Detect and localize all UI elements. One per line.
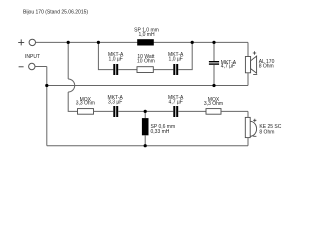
svg-text:0,33 mH: 0,33 mH [151, 129, 170, 135]
inductor L2 SP 0,6mm 0,33mH [142, 118, 149, 135]
minus sign of input [19, 66, 24, 68]
svg-text:4,7 µF: 4,7 µF [169, 100, 183, 106]
input terminal + [29, 39, 35, 45]
resistor R2 MOX 3,3 Ohm [78, 109, 94, 115]
node E minus rail junction [45, 84, 48, 87]
capacitor C2 MKT-A 1,0uF [173, 64, 175, 75]
svg-text:1,0 µF: 1,0 µF [109, 57, 123, 63]
wire RC branch left vertical [98, 42, 113, 69]
wire C5 to R3 [178, 110, 206, 112]
wire shunt cap lower [213, 65, 215, 86]
plus sign of input [18, 39, 24, 45]
node B top rail / RC left [97, 41, 100, 44]
svg-text:1,0 mH: 1,0 mH [138, 32, 155, 38]
svg-text:1,0 µF: 1,0 µF [169, 57, 183, 63]
node H tweeter bottom rail / L2 [144, 144, 147, 147]
svg-text:3,3 Ohm: 3,3 Ohm [204, 101, 223, 107]
wire from woofer bottom [247, 73, 249, 86]
inductor L1 SP 1,0mm 1,0mH [137, 39, 154, 45]
resistor R3 MOX 3,3 Ohm [206, 109, 221, 115]
wire from minus terminal [35, 66, 47, 68]
svg-text:Bijou 170 (Stand 25.06.2015): Bijou 170 (Stand 25.06.2015) [23, 9, 88, 15]
node D top rail / shunt cap [212, 41, 215, 44]
wire inductor L2 branch upper [144, 111, 146, 118]
speaker LS1 woofer AL 170 [245, 57, 250, 73]
svg-text:8 Ohm: 8 Ohm [259, 129, 274, 135]
input terminal - [29, 63, 35, 69]
resistor R1 10W 10 Ohm [137, 67, 153, 73]
svg-text:10 Ohm: 10 Ohm [137, 59, 155, 65]
capacitor C3 MKT-A 4,7uF [209, 61, 219, 62]
node A top rail / tweeter feed [67, 41, 70, 44]
node F woofer rail / shunt cap [212, 84, 215, 87]
wire top rail [36, 41, 249, 43]
node C top rail / RC right [191, 41, 194, 44]
wire C1 to R1 [118, 69, 137, 71]
wire RC branch right vertical [178, 42, 192, 69]
wire left vertical return [46, 67, 48, 146]
wire R2 to C4 [94, 110, 114, 112]
wire hop over woofer rail [68, 79, 75, 92]
wire woofer bottom rail [47, 85, 248, 87]
wire R1 to C2 [153, 69, 173, 71]
wire tweeter feed lower [68, 92, 77, 111]
svg-text:4,7 µF: 4,7 µF [221, 64, 235, 70]
wire tweeter feed upper [67, 42, 69, 79]
svg-text:INPUT: INPUT [25, 54, 40, 60]
wire to woofer top [247, 42, 249, 56]
speaker LS1 plus sign [253, 51, 256, 54]
speaker LS2 minus sign [253, 135, 256, 137]
wire to tweeter top [247, 111, 249, 117]
wire C4 to C5 [118, 110, 173, 112]
svg-text:3,3 Ohm: 3,3 Ohm [76, 101, 95, 107]
speaker LS2 plus sign [253, 119, 256, 122]
speaker LS2 tweeter KE 25 SC [245, 117, 250, 137]
speaker LS1 minus sign [253, 74, 257, 76]
wire inductor L2 branch lower [144, 135, 146, 145]
wire R3 to tweeter [221, 110, 248, 112]
capacitor C1 MKT-A 1,0uF [113, 64, 115, 75]
capacitor C5 MKT-A 4,7uF [173, 106, 175, 117]
wire tweeter bottom rail [47, 145, 248, 147]
wire from tweeter bottom [247, 138, 249, 146]
svg-text:3,3 µF: 3,3 µF [108, 100, 122, 106]
wire shunt cap upper [213, 42, 215, 61]
svg-text:8 Ohm: 8 Ohm [259, 64, 274, 70]
node G tweeter wire / L2 [144, 110, 147, 113]
capacitor C4 MKT-A 3,3uF [113, 106, 115, 117]
